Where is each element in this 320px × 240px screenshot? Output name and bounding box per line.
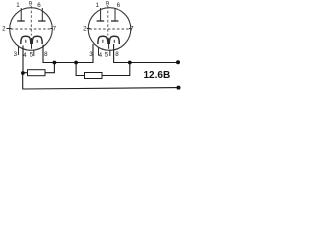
tube V1 heater arc left [21,36,31,44]
junction node B [53,61,57,65]
svg-text:6: 6 [37,2,41,9]
tube V2 envelope [88,8,131,51]
svg-text:4: 4 [23,52,27,59]
svg-text:9: 9 [106,1,110,8]
tube V2 pin 6 lead [114,8,116,21]
tube V1 heater arc right [32,36,42,44]
svg-text:2: 2 [83,26,87,33]
wire: node A to resistor R1 [23,72,28,74]
svg-text:7: 7 [130,26,134,33]
svg-text:7: 7 [53,26,57,33]
svg-text:3: 3 [89,51,93,58]
junction node A [21,71,25,75]
svg-text:1: 1 [96,2,100,9]
tube V1 pin 1 lead [20,8,22,21]
svg-text:2: 2 [2,26,6,33]
wire: V1 pin 8 down to top rail, rail to V2 pin 3 [43,44,93,63]
tube V1 heater arc right tick [36,40,38,43]
tube V2 pin 4 stub [98,47,100,56]
tube V2 heater arc right [109,36,119,44]
tube V1 pin 6 anode bar [38,20,45,22]
tube V1 vertical dashed axis (pin 9) [30,6,32,36]
resistor R1 [28,70,46,76]
tube V2 pin 1 anode bar [97,20,105,22]
tube V1 pin 6 lead [41,8,43,21]
terminal - (bottom) [177,86,181,90]
tube V1 envelope [10,8,53,51]
tube V1 pin 2 lead [7,28,12,30]
tube V2 heater centre tap lead [108,38,110,49]
svg-text:5: 5 [30,52,34,59]
tube V2 vertical dashed axis (pin 9) [107,6,109,36]
tube V2 pin 5 stub [109,50,111,57]
terminal + (top) [176,60,180,64]
svg-text:5: 5 [105,52,109,59]
svg-text:1: 1 [16,2,20,9]
tube V2 heater arc left [98,36,108,44]
wire: R1 right up to top rail node B [45,63,54,73]
svg-text:12.6В: 12.6В [144,70,171,81]
tube V2 pin 1 lead [100,8,102,21]
svg-text:9: 9 [29,1,33,8]
tube V1 horizontal dashed axis [11,28,51,30]
resistor R2 [85,73,103,79]
junction node C [74,61,78,65]
wire: R2 right up to top rail node D [102,63,130,76]
tube V1 pin 5 stub [33,50,35,57]
tube V1 pin 1 anode bar [17,20,25,22]
tube V1 heater centre tap lead [31,38,33,49]
tube V1 heater arc left tick [25,40,27,43]
svg-text:3: 3 [14,51,18,58]
tube V2 horizontal dashed axis [89,28,129,30]
wire: V1 pin 4 down to node A [22,46,24,74]
tube V2 pin 6 anode bar [111,20,118,22]
svg-text:8: 8 [44,51,48,58]
tube V2 heater arc right tick [113,40,115,43]
tube V1 pin 7 lead [51,28,53,30]
tube V2 heater arc left tick [102,40,104,43]
svg-text:8: 8 [115,51,119,58]
svg-text:4: 4 [99,52,103,59]
wire: V2 pin 8 down, right to node D, top rail to + terminal [114,44,178,63]
tube V1 pin 3 stub [18,46,20,56]
junction node D [128,61,132,65]
tube V2 pin 2 lead [87,28,91,30]
tube V2 pin 7 lead [129,28,131,30]
svg-text:6: 6 [117,2,121,9]
wire: top rail node C down to resistor R2 [76,63,84,76]
wire: node A down and bottom rail to - terminal [23,73,179,89]
